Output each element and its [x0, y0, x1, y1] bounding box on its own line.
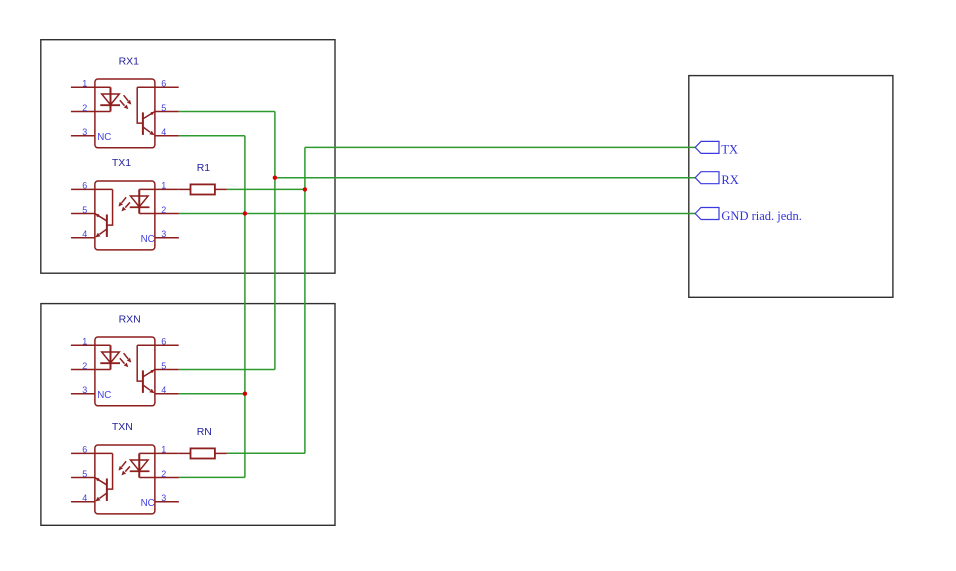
- svg-text:TX: TX: [721, 143, 738, 157]
- svg-text:NC: NC: [97, 390, 111, 401]
- svg-text:R1: R1: [197, 162, 211, 174]
- svg-text:4: 4: [82, 229, 87, 239]
- resistor R1: [179, 184, 227, 194]
- optocoupler TX1: [71, 181, 179, 250]
- junction at RX tee: [273, 176, 277, 180]
- frame box 3 (control unit, right): [689, 76, 893, 298]
- port RX: [695, 172, 719, 184]
- wire vertical x275 RX bus: [274, 112, 276, 370]
- svg-text:NC: NC: [97, 132, 111, 143]
- wire RXN pin5 to vertical: [179, 369, 275, 371]
- port TX: [695, 141, 719, 153]
- port GND: [695, 208, 719, 220]
- svg-text:RX: RX: [721, 173, 738, 187]
- wire TXN pin2 to vertical: [179, 476, 245, 478]
- svg-text:1: 1: [161, 181, 166, 191]
- svg-text:4: 4: [161, 127, 166, 137]
- TXN pin numbers: [82, 445, 166, 503]
- wire vertical x245 GND bus: [244, 136, 246, 478]
- junction at R1 output tee: [303, 187, 307, 191]
- svg-text:2: 2: [82, 361, 87, 371]
- RX1 pin numbers: [82, 79, 166, 137]
- svg-text:5: 5: [82, 469, 87, 479]
- svg-text:3: 3: [161, 493, 166, 503]
- svg-text:NC: NC: [141, 498, 155, 509]
- svg-text:TXN: TXN: [112, 421, 133, 433]
- wire TX line to port: [305, 146, 695, 148]
- optocoupler RXN: [71, 337, 179, 406]
- wire RX1 pin4 to vertical: [179, 135, 245, 137]
- svg-text:4: 4: [161, 385, 166, 395]
- svg-text:4: 4: [82, 493, 87, 503]
- svg-text:NC: NC: [141, 234, 155, 245]
- svg-text:1: 1: [82, 337, 87, 347]
- resistor RN: [179, 448, 227, 458]
- svg-text:6: 6: [161, 337, 166, 347]
- wire RX line to port: [275, 177, 695, 179]
- svg-text:2: 2: [82, 103, 87, 113]
- wire GND line to port: [179, 213, 695, 215]
- svg-text:6: 6: [82, 181, 87, 191]
- junction at RXN pin4 tee: [243, 392, 247, 396]
- svg-text:2: 2: [161, 205, 166, 215]
- RXN pin numbers: [82, 337, 166, 395]
- svg-text:RN: RN: [197, 426, 212, 438]
- svg-text:3: 3: [161, 229, 166, 239]
- wire RX1 pin5 to vertical: [179, 111, 275, 113]
- svg-text:3: 3: [82, 127, 87, 137]
- wire RXN pin4 to vertical: [179, 393, 245, 395]
- svg-text:2: 2: [161, 469, 166, 479]
- svg-text:3: 3: [82, 385, 87, 395]
- junction at GND tee: [243, 211, 247, 215]
- svg-text:5: 5: [161, 361, 166, 371]
- wire vertical x305 TX bus: [304, 147, 306, 453]
- svg-text:RX1: RX1: [119, 56, 140, 68]
- svg-text:6: 6: [82, 445, 87, 455]
- svg-text:6: 6: [161, 79, 166, 89]
- TX1 pin numbers: [82, 181, 166, 239]
- svg-text:5: 5: [161, 103, 166, 113]
- svg-text:RXN: RXN: [119, 314, 141, 326]
- frame box 1 (upper dashed group container): [41, 40, 335, 274]
- wire RN output to vertical: [227, 452, 305, 454]
- optocoupler TXN: [71, 445, 179, 514]
- frame box 2 (lower group container): [41, 304, 335, 526]
- svg-text:1: 1: [161, 445, 166, 455]
- wire R1 output to vertical: [227, 188, 305, 190]
- svg-text:TX1: TX1: [112, 157, 131, 169]
- optocoupler RX1: [71, 79, 179, 148]
- svg-text:GND riad. jedn.: GND riad. jedn.: [721, 209, 802, 223]
- svg-text:1: 1: [82, 79, 87, 89]
- svg-text:5: 5: [82, 205, 87, 215]
